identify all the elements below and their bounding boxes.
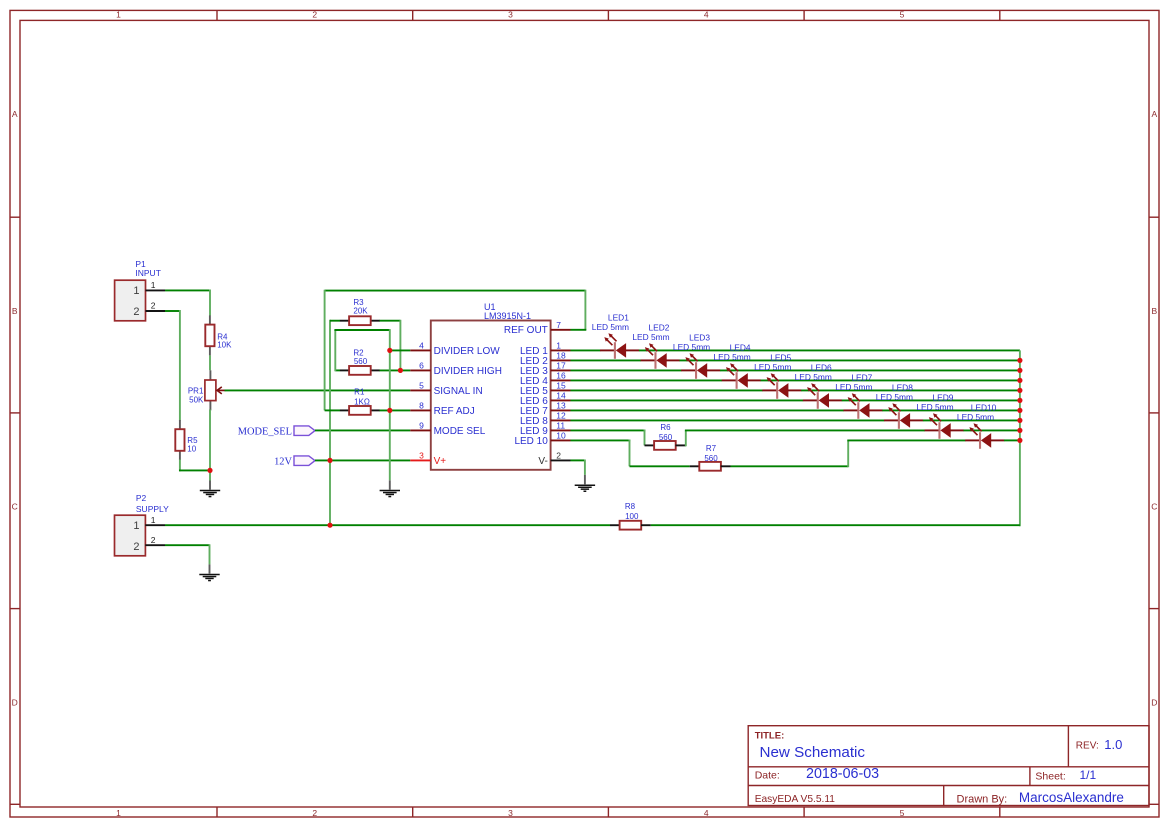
svg-text:LED 5mm: LED 5mm	[632, 332, 669, 342]
wire U1 LED1 row	[571, 349, 601, 351]
wire P2.2 to GND4	[165, 544, 210, 573]
svg-text:560: 560	[704, 454, 718, 463]
wire R4 to PR1	[209, 355, 211, 370]
svg-text:LED7: LED7	[851, 372, 872, 382]
svg-text:8: 8	[419, 400, 424, 410]
svg-text:LED4: LED4	[730, 342, 751, 352]
LED8	[876, 382, 924, 429]
svg-text:P2: P2	[136, 493, 147, 503]
svg-text:2: 2	[312, 808, 317, 818]
svg-text:REF ADJ: REF ADJ	[434, 406, 475, 417]
LED7	[835, 372, 883, 419]
svg-text:B: B	[12, 306, 18, 316]
wire R6 to LED9	[685, 430, 925, 446]
resistor R4	[205, 315, 232, 355]
ground GND1	[200, 491, 220, 497]
svg-text:Sheet:: Sheet:	[1035, 771, 1065, 783]
svg-text:12: 12	[556, 410, 566, 420]
svg-text:R8: R8	[625, 502, 636, 511]
svg-text:1: 1	[151, 515, 156, 525]
svg-text:LED 5mm: LED 5mm	[916, 402, 953, 412]
svg-text:LED 5mm: LED 5mm	[957, 412, 994, 422]
svg-text:A: A	[12, 109, 18, 119]
svg-text:1: 1	[556, 340, 561, 350]
wire LED5 to bus	[801, 389, 1020, 391]
svg-text:50K: 50K	[189, 395, 204, 404]
wire LED6 to bus	[842, 399, 1020, 401]
wire R5 to junction	[179, 460, 210, 472]
svg-text:LED 5mm: LED 5mm	[754, 362, 791, 372]
junction at PR1/R5	[207, 468, 212, 473]
LED6	[795, 362, 843, 409]
wire U1 LED3 row	[571, 369, 682, 371]
wire R2 right to pin6	[380, 369, 411, 371]
wire P1.2 to R5	[165, 310, 180, 421]
wire U1 LED8 row	[571, 419, 885, 421]
svg-text:4: 4	[704, 10, 709, 20]
svg-text:10: 10	[556, 430, 566, 440]
svg-text:1/1: 1/1	[1080, 768, 1097, 782]
svg-text:INPUT: INPUT	[135, 268, 161, 278]
resistor R6	[645, 423, 686, 450]
svg-text:LED9: LED9	[932, 392, 953, 402]
svg-text:C: C	[12, 502, 18, 512]
svg-text:DIVIDER LOW: DIVIDER LOW	[434, 346, 501, 357]
svg-text:17: 17	[556, 360, 566, 370]
wire LED2 to bus	[679, 359, 1019, 361]
connector P1	[115, 259, 165, 321]
resistor R2	[335, 349, 380, 375]
svg-text:LED6: LED6	[811, 362, 832, 372]
wire MODE_SEL to U1 pin9	[315, 429, 410, 431]
resistor R3	[330, 298, 380, 325]
LED2	[632, 322, 680, 369]
wire P2.1 supply row	[165, 524, 610, 526]
wire V- to GND3	[571, 460, 585, 485]
junction 12V/supply	[327, 458, 332, 463]
wire U1 pin11 to R6	[571, 430, 646, 446]
svg-text:PR1: PR1	[188, 387, 204, 396]
svg-text:1.0: 1.0	[1104, 737, 1122, 752]
wire LED3 to bus	[720, 369, 1020, 371]
title block	[748, 726, 1149, 806]
wire junction to GND1	[209, 470, 211, 489]
svg-text:LED 5mm: LED 5mm	[592, 322, 629, 332]
svg-text:13: 13	[556, 400, 566, 410]
svg-text:TITLE:: TITLE:	[755, 730, 785, 741]
svg-text:560: 560	[354, 357, 368, 366]
junctions LED bus	[1017, 358, 1022, 443]
svg-text:LED8: LED8	[892, 382, 913, 392]
resistor R7	[690, 444, 731, 471]
svg-text:2: 2	[556, 450, 561, 460]
svg-text:LED5: LED5	[770, 352, 791, 362]
wire ground net vertical	[389, 329, 391, 490]
svg-text:5: 5	[900, 808, 905, 818]
wire R1 to pin8	[380, 409, 411, 411]
ground GND3	[575, 485, 595, 491]
resistor R1	[325, 387, 380, 414]
resistor R5	[175, 420, 198, 460]
svg-text:20K: 20K	[353, 306, 368, 315]
junction R3/pin6	[398, 368, 403, 373]
wire LED4 to bus	[761, 379, 1020, 381]
svg-text:3: 3	[419, 450, 424, 460]
wire U1 LED7 row	[571, 409, 844, 411]
net flag 12V	[274, 456, 315, 467]
wire LED bus vertical	[1019, 350, 1021, 526]
svg-text:SIGNAL IN: SIGNAL IN	[434, 386, 483, 397]
svg-text:V+: V+	[434, 456, 447, 467]
svg-text:2018-06-03: 2018-06-03	[806, 766, 879, 782]
svg-text:3: 3	[508, 808, 513, 818]
svg-text:18: 18	[556, 350, 566, 360]
svg-text:Date:: Date:	[755, 770, 780, 782]
svg-text:5: 5	[419, 380, 424, 390]
svg-text:1: 1	[151, 280, 156, 290]
svg-text:New Schematic: New Schematic	[760, 744, 866, 761]
svg-text:DIVIDER HIGH: DIVIDER HIGH	[434, 366, 502, 377]
wire U1 LED6 row	[571, 399, 804, 401]
svg-text:LED 5mm: LED 5mm	[835, 382, 872, 392]
svg-text:10: 10	[187, 444, 196, 453]
wire pin4 stub wire	[390, 349, 411, 351]
svg-text:4: 4	[704, 808, 709, 818]
svg-text:LED2: LED2	[648, 322, 669, 332]
svg-text:B: B	[1151, 306, 1157, 316]
svg-text:LED10: LED10	[971, 402, 997, 412]
svg-text:LED 10: LED 10	[514, 436, 548, 447]
LED9	[916, 392, 964, 439]
svg-text:LED 5mm: LED 5mm	[876, 392, 913, 402]
svg-text:R7: R7	[706, 444, 717, 453]
svg-text:2: 2	[151, 535, 156, 545]
svg-text:1: 1	[116, 10, 121, 20]
svg-text:REF OUT: REF OUT	[504, 325, 548, 336]
svg-text:12V: 12V	[274, 456, 292, 467]
wire LED9 to bus	[963, 429, 1019, 431]
svg-text:9: 9	[419, 420, 424, 430]
svg-text:6: 6	[419, 360, 424, 370]
svg-text:2: 2	[133, 541, 139, 553]
svg-text:R1: R1	[354, 387, 365, 396]
svg-text:LED3: LED3	[689, 332, 710, 342]
potentiometer PR1	[188, 370, 226, 410]
svg-text:11: 11	[556, 420, 565, 430]
svg-text:A: A	[1151, 109, 1157, 119]
svg-text:15: 15	[556, 380, 566, 390]
svg-text:D: D	[12, 698, 18, 708]
svg-text:MODE_SEL: MODE_SEL	[238, 426, 292, 437]
svg-text:1: 1	[133, 520, 139, 532]
LED3	[673, 332, 721, 379]
wire LED8 to bus	[923, 419, 1020, 421]
svg-text:MODE SEL: MODE SEL	[434, 426, 486, 437]
wire LED10 to bus	[1004, 439, 1020, 441]
svg-text:LED 5mm: LED 5mm	[713, 352, 750, 362]
wire LED1 to bus	[639, 349, 1020, 351]
svg-text:14: 14	[556, 390, 566, 400]
svg-text:16: 16	[556, 370, 566, 380]
wire REF OUT top	[325, 290, 587, 411]
ground GND4	[199, 575, 219, 581]
wire R3 to pin6 riser	[380, 320, 401, 371]
junction pin8	[387, 408, 392, 413]
svg-text:2: 2	[312, 10, 317, 20]
wire U1 LED4 row	[571, 379, 723, 381]
LED4	[713, 342, 761, 389]
svg-text:SUPPLY: SUPPLY	[136, 504, 169, 514]
svg-text:V-: V-	[538, 456, 547, 467]
svg-text:2: 2	[133, 306, 139, 318]
svg-text:C: C	[1151, 502, 1157, 512]
svg-text:1KΩ: 1KΩ	[354, 397, 370, 406]
svg-text:3: 3	[508, 10, 513, 20]
wire P1.1 to R4	[165, 290, 210, 316]
connector P2	[115, 493, 170, 556]
svg-text:D: D	[1151, 698, 1157, 708]
wire PR1 to junction	[209, 410, 211, 471]
wire R2 left loop	[334, 330, 389, 371]
wire U1 pin10 to R7	[571, 440, 690, 467]
resistor R8	[610, 502, 651, 530]
wire LED7 to bus	[882, 409, 1020, 411]
svg-text:EasyEDA V5.5.11: EasyEDA V5.5.11	[755, 794, 836, 805]
LED10	[957, 402, 1005, 449]
junction P2.1/supply	[327, 523, 332, 528]
svg-text:7: 7	[556, 320, 561, 330]
svg-text:100: 100	[625, 512, 639, 521]
svg-text:1: 1	[116, 808, 121, 818]
LED1	[592, 312, 640, 359]
svg-text:LED1: LED1	[608, 312, 629, 322]
svg-text:MarcosAlexandre: MarcosAlexandre	[1019, 790, 1124, 805]
svg-text:10K: 10K	[217, 341, 232, 350]
junction pin4	[387, 348, 392, 353]
op-amp U1 LM3915N-1	[410, 302, 570, 470]
wire supply vertical	[329, 320, 331, 526]
wire PR1 wiper to U1 pin5	[225, 389, 411, 391]
svg-text:1: 1	[133, 285, 139, 297]
svg-text:REV:: REV:	[1076, 741, 1099, 752]
svg-text:LM3915N-1: LM3915N-1	[484, 311, 531, 321]
net flag MODE_SEL	[238, 426, 315, 437]
svg-text:LED 5mm: LED 5mm	[795, 372, 832, 382]
wire 12V to U1 pin3	[315, 459, 410, 461]
LED5	[754, 352, 802, 399]
wire R8 to bus	[651, 524, 1020, 526]
wire U1 LED2 row	[571, 359, 641, 361]
svg-text:2: 2	[151, 301, 156, 311]
svg-text:560: 560	[659, 433, 673, 442]
svg-text:5: 5	[900, 10, 905, 20]
wire R7 to LED10	[731, 440, 966, 467]
svg-text:R6: R6	[660, 423, 671, 432]
svg-text:Drawn By:: Drawn By:	[957, 794, 1008, 806]
svg-text:4: 4	[419, 340, 424, 350]
wire U1 LED5 row	[571, 389, 763, 391]
svg-text:LED 5mm: LED 5mm	[673, 342, 710, 352]
ground GND2	[380, 491, 400, 497]
